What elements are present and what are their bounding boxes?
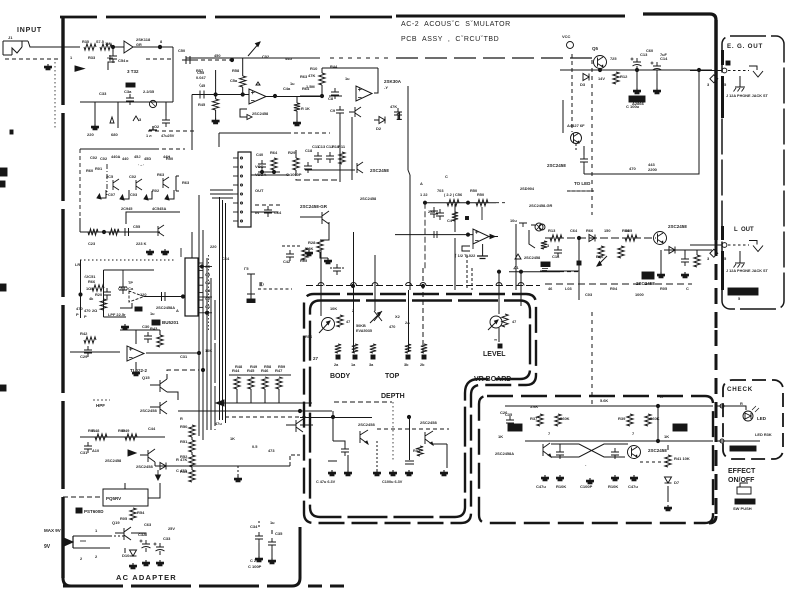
terminal level [494,337,502,348]
svg-text:50KB: 50KB [356,324,366,328]
svg-text:2SC2458: 2SC2458 [524,255,541,260]
capacitor C41 [264,206,282,217]
scan mark left b [0,284,6,291]
svg-text:HPF: HPF [96,403,105,408]
diag arrow top [248,42,260,56]
wire eff right branch [657,406,659,441]
label eff blob2 [664,424,687,439]
svg-text:R45: R45 [198,102,206,107]
label 9v [44,544,51,550]
svg-text:2SC2458: 2SC2458 [420,420,437,425]
svg-text:2SC2458: 2SC2458 [136,464,153,469]
svg-text:1u: 1u [150,311,155,316]
svg-text:C: C [445,174,448,179]
svg-text:C02: C02 [129,174,137,179]
svg-text:2SC2458A: 2SC2458A [156,305,175,310]
wire y271 [540,270,579,272]
svg-text:47u25V: 47u25V [161,134,175,138]
resistor R49 [122,428,137,440]
svg-text:2SC2458: 2SC2458 [140,408,157,413]
svg-text:1K: 1K [230,436,235,441]
svg-text:C07: C07 [108,192,115,197]
svg-text:R10K: R10K [556,484,566,489]
ground row depth [329,470,448,476]
wire x1 dash [258,278,292,289]
wire cn1 bus [210,190,233,198]
node mid [260,170,275,173]
label c22 [286,172,302,177]
wire dotted x55 [54,62,56,130]
resistor R46 [230,58,246,95]
wire input to R [28,41,80,47]
svg-text:MAX 9V: MAX 9V [44,528,61,533]
svg-text:C 2: C 2 [250,558,257,563]
wire y131 dash [148,124,196,131]
svg-text:C5a: C5a [230,78,238,83]
resistor R39 [618,414,633,426]
wire x173 up [172,47,174,102]
wire to buffer [112,46,124,48]
transistor Q12 [358,422,375,444]
svg-text:C64: C64 [222,256,230,261]
op-amp IC4 [129,291,144,302]
svg-text:220: 220 [87,132,94,137]
hook blk1 b [120,190,129,200]
node clock [423,201,469,204]
series cap block2 [162,292,166,301]
capacitor C9 [330,106,344,117]
svg-text:R56: R56 [305,334,313,339]
svg-text:A10: A10 [92,448,99,453]
wire input filter rail [80,101,173,103]
label hpf [93,400,110,408]
svg-text:-Y: -Y [384,85,388,90]
svg-text:R64: R64 [270,150,278,155]
svg-text:Q5: Q5 [592,46,599,51]
wire stub block2 [180,248,182,257]
wire bl up [290,455,300,466]
svg-text:2SK30A: 2SK30A [384,79,402,84]
resistor R54 [130,508,145,520]
resistor R29 [288,150,299,170]
svg-text:BU5201: BU5201 [162,320,179,325]
svg-text:47K: 47K [308,73,315,78]
svg-text:R04: R04 [610,286,618,291]
svg-text:440A: 440A [111,154,120,159]
wire psu down [124,548,126,553]
svg-text:D7: D7 [674,480,680,485]
capacitor C8 [328,88,342,101]
small mark [328,460,337,462]
hook blk1 c [144,191,152,200]
resistor R28 [306,240,323,252]
ground CN2 [122,324,129,330]
resistor R23 [100,299,106,310]
wire x465-470 bus [467,255,472,290]
capacitor C24 [436,209,444,220]
capacitor C15 [681,250,689,266]
wire y271 right [509,271,579,273]
resistor R16 [596,246,604,259]
wire opamp2 fb [374,68,378,93]
wire mid link [296,150,340,180]
ground C13 [634,70,641,94]
svg-text:R41 10K: R41 10K [674,456,690,461]
potentiometer VR2 TOP [370,311,410,329]
ground Q6 [658,250,665,278]
svg-text:C56: C56 [455,192,463,197]
wire q15 [167,370,199,400]
svg-text:R29: R29 [288,150,296,155]
capacitor C21 [330,264,344,275]
label bl [176,457,187,473]
resistor R11 [338,144,346,164]
regulator box [103,489,148,506]
svg-text:Q15: Q15 [142,375,150,380]
wire pot feed 1 [320,250,322,316]
ground row effect [542,475,638,484]
label eff values [536,484,638,489]
capacitor C11 [312,144,322,163]
svg-text:PCB ASSY , CˇRCUˇTBD: PCB ASSY , CˇRCUˇTBD [401,36,499,43]
op-amp IC2 [473,229,489,244]
resistor R10 [308,66,325,85]
wire bl out [155,462,290,466]
diode D4 [589,235,595,242]
wire x699 vertical [584,70,699,174]
buffer amp Q1 [124,37,151,53]
resistor R51 [180,439,195,452]
svg-text:R58: R58 [232,68,240,73]
svg-text:A: A [176,308,179,313]
terminal sq clock [466,217,469,220]
transistor Q13b [420,420,437,445]
svg-text:C33: C33 [99,91,107,96]
label ic3 [130,368,148,373]
op-amp IC3 [127,346,144,361]
ground Q11 [325,258,332,264]
svg-text:A: A [420,181,423,186]
svg-text:R50: R50 [477,192,484,197]
diode D3 [580,74,589,88]
svg-text:R52: R52 [413,449,420,453]
svg-text:R66: R66 [586,228,594,233]
wire y284 [545,283,692,285]
label 2SC [370,168,389,173]
svg-text:C60: C60 [646,48,653,53]
ground J3 [734,251,746,268]
svg-text:2SC2458-GR: 2SC2458-GR [529,203,553,208]
svg-text:LR: LR [75,262,80,267]
svg-text:C4: C4 [447,218,453,223]
svg-text:C30: C30 [142,324,150,329]
wire y58 solid [186,57,320,59]
svg-text:C18: C18 [305,148,313,153]
label TOP [385,373,400,380]
svg-text:C9: C9 [330,108,336,113]
svg-text:R37: R37 [530,416,538,421]
svg-text:J 12A PHONE JACK ST: J 12A PHONE JACK ST [726,94,769,98]
svg-text:2SK118: 2SK118 [136,37,151,42]
wire fb2 top [322,68,378,96]
wire top link bus [408,170,410,175]
label adaptor pins [95,528,98,559]
svg-text:45D: 45D [144,156,151,161]
label y174 values [629,101,658,172]
svg-text:TP: TP [128,280,133,285]
svg-text:470: 470 [84,308,91,313]
wire clock left vert [424,203,426,270]
bracket blk1 [176,176,190,191]
resistor R19 [102,229,119,235]
wire eff mid rail [525,440,713,442]
svg-text:C31: C31 [80,450,88,455]
svg-text:R63: R63 [157,172,165,177]
svg-text:C64: C64 [570,228,578,233]
wire depth dotted v393 [392,402,394,460]
label blk1 row [90,154,170,160]
svg-text:EVA5035: EVA5035 [356,329,372,333]
svg-text:·→·: ·→· [138,162,144,167]
svg-text:R10K: R10K [608,484,618,489]
svg-text:R63: R63 [182,180,190,185]
label S-C2 [127,69,139,74]
svg-text:C13: C13 [318,144,326,149]
svg-text:725: 725 [610,56,617,61]
wire into depth [222,403,312,417]
ground ic3 [133,362,140,376]
wire lln link [291,402,312,404]
svg-text:C64: C64 [274,210,282,215]
transistor Q18 [286,419,303,432]
capacitor C23 [428,207,438,218]
wire depth v333 [332,411,334,441]
capacitor C small [162,102,170,127]
ground tbar [146,126,175,138]
block2 vert x103 [104,270,127,317]
svg-text:C02: C02 [262,54,270,59]
wire branch x579 [577,238,581,300]
capacitor C28 [611,448,619,459]
wire bl rail [80,436,165,438]
resistor R64 [270,150,278,170]
svg-text:R62: R62 [118,428,126,433]
svg-text:9V: 9V [44,544,51,550]
wire cluster rail [305,169,355,171]
check board outline [723,380,783,459]
arrowhead bl [128,450,136,456]
resistor R14 [622,228,637,241]
wire gnd dash y59 [5,58,61,60]
wire depth in1 [300,410,332,412]
svg-text:C3a: C3a [124,89,132,94]
wire bus dotted [208,255,210,332]
series capacitor C55 [196,70,206,99]
svg-text:R53: R53 [180,469,188,474]
ground bl [235,466,242,482]
label output blob [728,288,758,295]
capacitor C29 [80,346,92,359]
label sw blob [733,499,755,511]
transistor Q16 [140,401,167,414]
svg-text:703: 703 [437,188,444,193]
wire rescol [191,437,193,470]
svg-text:2Ca: 2Ca [126,286,134,291]
svg-text:440: 440 [122,156,129,161]
svg-text:1: 1 [396,111,402,123]
hook fb1 [240,109,269,120]
svg-text:R20: R20 [95,292,102,297]
resistor R44 [232,368,240,389]
label 27 [313,356,319,361]
label AC ADAPTER [116,573,177,582]
lambda mark [133,116,142,122]
svg-text:C58: C58 [118,286,126,291]
wire right bus drop [515,224,517,290]
junction dots 2 [197,284,424,418]
svg-text:C44: C44 [148,426,156,431]
svg-text:( 2.2 ): ( 2.2 ) [444,192,455,197]
label 470p [76,306,83,317]
svg-text:R50: R50 [470,188,477,193]
ground pair above block2 [147,249,169,255]
transistor Q8 [129,174,142,190]
wire power rail top [560,69,712,71]
resistor R13 [548,228,562,241]
wire pot feed 7 [519,270,522,306]
svg-text:2SC2458-GR: 2SC2458-GR [300,204,328,209]
label INPUT [17,27,42,34]
transistor Q7 [106,174,119,190]
wire depth in2 [300,417,372,419]
capacitor C10 [394,108,402,119]
wire eff right link [640,445,668,462]
node stage1 in [214,93,244,96]
label one [396,111,402,123]
svg-text:A4427 6F: A4427 6F [567,123,585,128]
capacitor C2 [107,47,117,63]
transistor Q17 [136,449,155,469]
svg-text:470: 470 [629,166,636,171]
resistor R40 [645,414,660,426]
wire depth dash mid [377,428,449,430]
label CN2 pins [205,264,211,309]
svg-text:2SC2458: 2SC2458 [105,458,122,463]
svg-text:〈45: 〈45 [197,83,206,88]
block2 top dashed [80,259,175,261]
label ic2 [455,253,476,258]
transistor Q6 [654,224,688,245]
wire reg up [125,483,160,498]
capacitor C20 [119,270,134,294]
label E.G. OUT [727,43,763,50]
svg-text:C 1000P: C 1000P [286,172,302,177]
resistor R38 [555,414,570,426]
capacitor C36 [567,123,588,174]
svg-text:470: 470 [76,306,83,311]
svg-text:C16: C16 [552,254,560,259]
svg-text:R13: R13 [548,228,556,233]
label blob 2SC [636,272,655,286]
pad circle P1 [562,34,574,49]
label J3 [726,269,769,273]
label LEVEL [483,351,506,358]
svg-text:A2866: A2866 [632,101,645,106]
svg-text:R12: R12 [620,74,628,79]
svg-text:P: P [84,314,87,319]
ground input sleeve [45,64,52,70]
svg-text:473: 473 [268,448,275,453]
filter block1 top line [80,148,185,150]
svg-text:SW PUSH: SW PUSH [733,506,752,511]
svg-text:C42: C42 [283,259,291,264]
wire reg stub [63,496,103,498]
svg-text:R02: R02 [152,188,160,193]
svg-text:R54: R54 [137,510,145,515]
diode mark ic2 [434,231,437,238]
svg-text:2SC2458: 2SC2458 [252,111,269,116]
svg-text:O2: O2 [154,124,160,129]
wire x192 down [191,95,193,151]
filter block1 left edge [79,149,81,232]
node power [598,68,638,71]
svg-text:VCC: VCC [562,34,571,39]
label pot types [356,324,372,333]
svg-text:X2: X2 [395,314,401,319]
wire ll rail [70,351,120,353]
wire stage2 rail [300,95,322,97]
svg-text:CHECK: CHECK [727,386,753,393]
svg-text:GR: GR [136,43,142,47]
svg-text:1 л: 1 л [146,134,152,138]
svg-text:R60: R60 [86,168,93,173]
label angle [513,265,519,270]
svg-text:LED: LED [757,416,767,421]
ground C33 [87,102,99,137]
E.G. OUT box left edge bars [721,50,724,290]
wire mid stub2 [258,171,280,173]
diode D9 [160,463,166,470]
capacitor C25 [333,441,349,456]
svg-text:TOP: TOP [385,373,400,380]
label DEPTH [381,393,405,400]
wire check wire1 [716,404,746,410]
svg-text:1 22: 1 22 [420,192,428,197]
hook block2 [120,303,132,308]
svg-text:EFFECT: EFFECT [728,468,756,475]
svg-text:10u: 10u [510,218,517,223]
svg-text:R01: R01 [95,166,103,171]
svg-text:R50: R50 [180,424,188,429]
wire x219 down [218,133,220,147]
svg-text:2b: 2b [420,363,425,367]
transistor Q3 [349,107,361,117]
svg-text:J1: J1 [8,35,13,40]
svg-text:C1: C1 [205,304,211,309]
transistor Q15 [142,375,167,392]
svg-text:5.6K: 5.6K [530,404,538,409]
capacitor C16 [552,246,562,259]
svg-text:45J: 45J [134,154,141,159]
svg-text:R44: R44 [330,64,338,69]
crystal X1 [244,266,255,303]
svg-text:5.6K: 5.6K [600,398,608,403]
transistor Q5 [592,46,607,69]
svg-text:2SC2458: 2SC2458 [668,224,687,229]
hook ic2 [462,246,470,251]
wire bus bottom bend [199,430,203,440]
label bm [248,564,262,569]
